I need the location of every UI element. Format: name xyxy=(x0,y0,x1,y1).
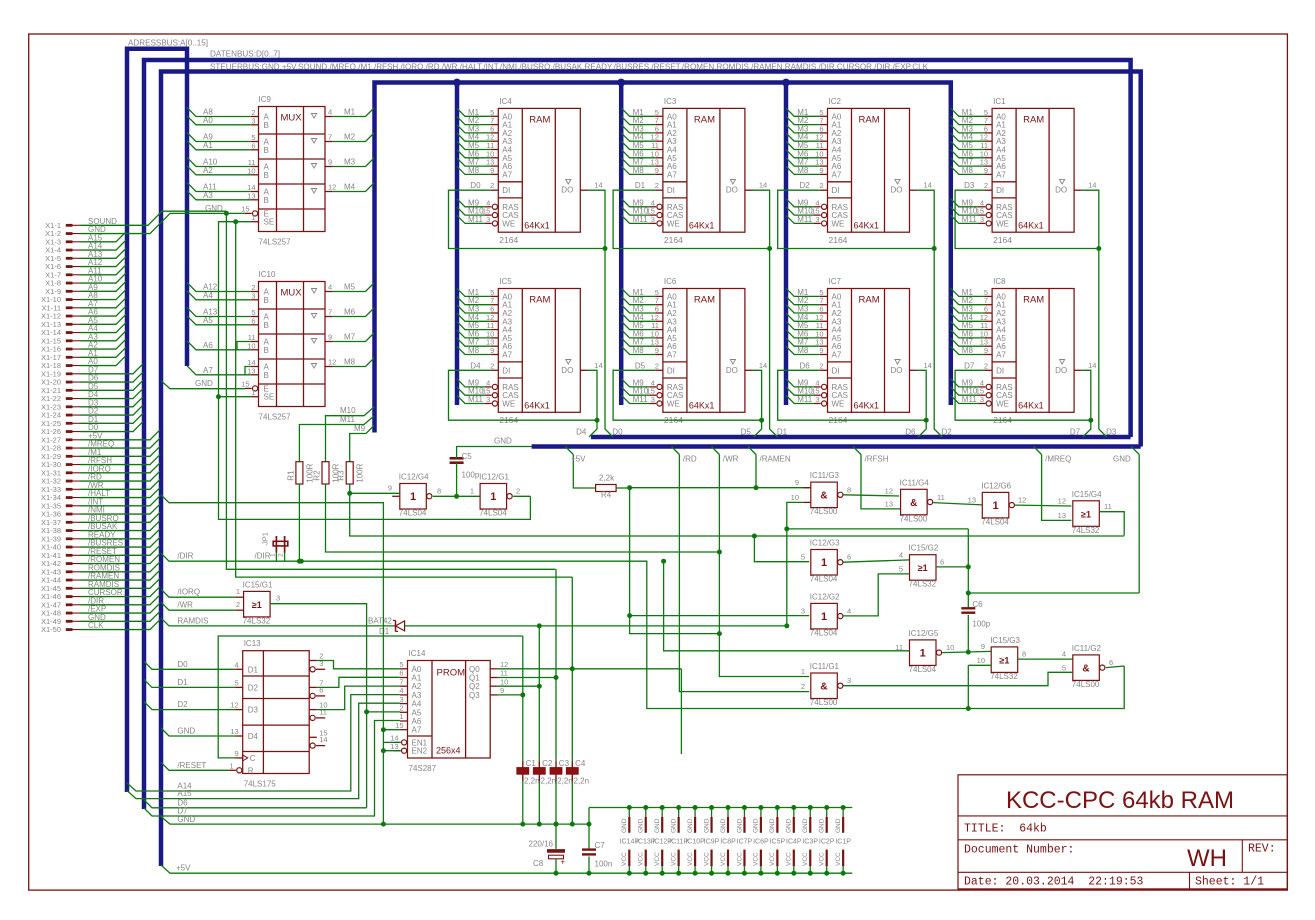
svg-text:14: 14 xyxy=(594,181,602,190)
svg-text:10: 10 xyxy=(247,341,255,350)
svg-text:74LS175: 74LS175 xyxy=(244,780,277,789)
svg-text:VCC: VCC xyxy=(670,852,677,866)
capacitor C5 100p xyxy=(450,452,480,480)
wire pin10 line xyxy=(787,528,969,530)
svg-text:VCC: VCC xyxy=(703,852,710,866)
ram IC7 2164 xyxy=(814,277,932,425)
svg-text:5: 5 xyxy=(399,660,403,669)
wire IC14 A2 pin 7 xyxy=(399,677,422,691)
svg-text:GND: GND xyxy=(703,818,710,833)
wire /DIR net xyxy=(161,552,1124,709)
wire Q1 net xyxy=(498,675,559,680)
svg-text:74LS32: 74LS32 xyxy=(243,616,271,625)
svg-text:A5: A5 xyxy=(203,316,213,325)
svg-text:A3: A3 xyxy=(203,191,213,200)
wire GND rail bottom xyxy=(161,808,589,827)
svg-text:JP1: JP1 xyxy=(261,532,270,545)
wire M2 to IC4 xyxy=(457,116,498,125)
svg-text:D4: D4 xyxy=(470,361,481,370)
wire M6 to IC6 xyxy=(622,329,663,338)
svg-text:IC15/G2: IC15/G2 xyxy=(909,544,939,553)
svg-text:IC15/G4: IC15/G4 xyxy=(1072,490,1102,499)
wire C5 bottom xyxy=(454,463,459,499)
wire D1 jog to /WR vertical xyxy=(630,626,722,636)
wire A0 to IC9 xyxy=(187,116,251,125)
svg-text:M5: M5 xyxy=(344,283,356,292)
svg-text:4: 4 xyxy=(328,108,332,117)
svg-text:10: 10 xyxy=(500,677,508,686)
svg-text:M2: M2 xyxy=(344,133,356,142)
svg-text:74LS00: 74LS00 xyxy=(900,514,928,523)
or IC15/G4 74LS32 xyxy=(1072,490,1102,535)
ram IC4 2164 xyxy=(485,97,603,245)
wire GND C6 line xyxy=(966,591,1139,596)
svg-text:&: & xyxy=(820,682,827,693)
wire M7 to IC1 xyxy=(951,158,992,167)
wire A14 net xyxy=(127,695,400,791)
connector pin X1-31 /IORQ xyxy=(41,463,160,478)
connector pin X1-32 /RD xyxy=(41,471,160,486)
svg-text:2164: 2164 xyxy=(664,235,683,245)
svg-text:74LS257: 74LS257 xyxy=(259,413,292,422)
svg-text:RAM: RAM xyxy=(1023,295,1044,306)
wire E enable net xyxy=(224,211,556,569)
wire IC14 Q3 pin 9 xyxy=(469,686,504,700)
wire IC12/G5 out to IC15/G3 xyxy=(942,642,991,653)
node D3 at IC1 xyxy=(964,181,975,190)
connector pin X1-19 D7 xyxy=(41,364,143,379)
svg-text:A15: A15 xyxy=(177,789,192,798)
svg-text:A3: A3 xyxy=(412,691,422,700)
wire D7 net xyxy=(144,721,400,817)
svg-text:12: 12 xyxy=(328,183,336,192)
connector pin X1-41 /RESET xyxy=(41,545,160,560)
node /RAMEN stub from bus xyxy=(748,447,791,464)
svg-text:74LS04: 74LS04 xyxy=(909,665,937,674)
svg-text:M9: M9 xyxy=(354,424,366,433)
svg-text:Q3: Q3 xyxy=(469,691,480,700)
svg-text:B: B xyxy=(264,321,269,330)
wire M7 to IC5 xyxy=(457,338,498,347)
capacitor C6 100p xyxy=(961,529,990,655)
wire M10 to IC4 xyxy=(457,207,490,216)
svg-text:2: 2 xyxy=(516,487,520,496)
svg-text:/DIR: /DIR xyxy=(255,552,271,561)
capacitor C4 2,2n xyxy=(566,577,589,824)
wire IC13 output pin 11 xyxy=(310,707,327,720)
svg-text:RAM: RAM xyxy=(1023,114,1044,125)
wire IC15/G2 output xyxy=(936,557,968,567)
svg-text:IC10P: IC10P xyxy=(685,839,705,846)
svg-text:D2: D2 xyxy=(248,683,259,692)
wire M4 from IC9 xyxy=(333,183,374,192)
svg-text:VCC: VCC xyxy=(736,852,743,866)
svg-text:Document Number:: Document Number: xyxy=(964,844,1074,857)
svg-text:DO: DO xyxy=(1055,366,1067,375)
connector pin X1-25 D1 xyxy=(41,413,143,428)
svg-text:D1: D1 xyxy=(635,181,646,190)
svg-text:GND: GND xyxy=(195,379,213,388)
svg-text:RAM: RAM xyxy=(859,114,880,125)
wire R4 down to D1 line xyxy=(627,488,632,626)
svg-text:DATENBUS:D[0..7]: DATENBUS:D[0..7] xyxy=(210,49,280,59)
svg-text:9: 9 xyxy=(819,166,823,175)
connector pin X1-38 /BUSAK xyxy=(41,521,160,536)
svg-text:3: 3 xyxy=(251,116,255,125)
svg-text:A4: A4 xyxy=(412,700,422,709)
svg-text:3: 3 xyxy=(399,695,403,704)
wire IC15/G3 pin10 xyxy=(968,656,991,665)
svg-text:A1: A1 xyxy=(412,674,422,683)
wire M7 to IC8 xyxy=(951,338,992,347)
wire M1 to IC5 xyxy=(457,288,498,297)
svg-text:WE: WE xyxy=(996,400,1009,409)
svg-text:14: 14 xyxy=(594,361,602,370)
bus DATENBUS label xyxy=(210,49,280,59)
bypass capacitor IC11P xyxy=(669,805,688,876)
svg-text:B: B xyxy=(264,121,269,130)
svg-text:1: 1 xyxy=(236,587,240,596)
svg-text:6: 6 xyxy=(251,141,255,150)
bypass capacitor IC10P xyxy=(685,805,705,876)
svg-text:2: 2 xyxy=(819,181,823,190)
svg-text:D2: D2 xyxy=(177,700,188,709)
svg-text:1: 1 xyxy=(230,761,234,770)
svg-text:14: 14 xyxy=(1088,181,1096,190)
wire A5 to IC10 xyxy=(187,316,251,325)
wire M9 xyxy=(350,424,374,462)
wire IC13 pin1 R xyxy=(229,761,242,773)
node D2 at IC2 xyxy=(800,181,811,190)
svg-text:GND: GND xyxy=(720,818,727,833)
svg-text:6: 6 xyxy=(940,557,944,566)
svg-text:IC6: IC6 xyxy=(664,277,677,286)
title REV xyxy=(1248,843,1276,856)
wire M1 to IC6 xyxy=(622,288,663,297)
svg-text:9: 9 xyxy=(235,749,239,758)
wire A15 net xyxy=(127,703,400,798)
svg-text:+5V: +5V xyxy=(571,455,586,464)
bus M-bus around RAM xyxy=(375,83,951,433)
svg-text:C3: C3 xyxy=(559,759,570,768)
svg-text:2: 2 xyxy=(399,704,403,713)
wire IC13 output pin 3 xyxy=(310,659,325,672)
bypass capacitor IC5P xyxy=(769,805,785,876)
bus ADRESSBUS label xyxy=(128,38,208,48)
svg-text:ADRESSBUS:A[0..15]: ADRESSBUS:A[0..15] xyxy=(128,38,208,48)
svg-text:3: 3 xyxy=(815,395,819,404)
svg-text:&: & xyxy=(820,491,827,502)
capacitor C3 2,2n xyxy=(550,569,573,824)
wire M4 to IC8 xyxy=(951,313,992,322)
svg-text:M1: M1 xyxy=(344,108,356,117)
wire R2 bottom run xyxy=(326,484,722,555)
svg-text:220/16: 220/16 xyxy=(529,840,554,849)
wire A6 to IC10 xyxy=(187,341,251,350)
svg-text:M3: M3 xyxy=(344,158,356,167)
svg-text:9: 9 xyxy=(795,478,799,487)
node D5 at IC6 xyxy=(635,361,646,370)
svg-text:15: 15 xyxy=(241,379,249,388)
svg-text:DI: DI xyxy=(996,186,1004,195)
svg-text:RAM: RAM xyxy=(529,114,550,125)
svg-text:/RESET: /RESET xyxy=(177,761,206,770)
wire D0 to IC13 xyxy=(144,660,235,670)
svg-text:GND: GND xyxy=(494,437,512,446)
wire M1 from IC9 xyxy=(333,108,374,117)
bypass capacitor IC4P xyxy=(786,805,802,876)
svg-text:13: 13 xyxy=(885,499,893,508)
connector pin X1-9 A9 xyxy=(45,281,126,296)
svg-text:11: 11 xyxy=(319,707,327,716)
connector pin X1-33 /WR xyxy=(41,479,160,494)
resistor R3 100R xyxy=(337,462,365,484)
svg-text:D7: D7 xyxy=(964,361,975,370)
svg-text:GND: GND xyxy=(819,818,826,833)
svg-text:4: 4 xyxy=(1062,650,1066,659)
svg-text:IC11/G4: IC11/G4 xyxy=(900,478,930,487)
svg-text:7: 7 xyxy=(328,308,332,317)
svg-text:9: 9 xyxy=(655,346,659,355)
wire D1 to IC13 xyxy=(144,678,235,688)
svg-text:B: B xyxy=(264,346,269,355)
wire M11 to IC1 xyxy=(951,215,984,224)
svg-text:EN2: EN2 xyxy=(412,747,428,756)
svg-text:3: 3 xyxy=(815,215,819,224)
node /WR stub from bus xyxy=(711,447,738,464)
svg-text:VCC: VCC xyxy=(638,852,645,866)
svg-text:74S287: 74S287 xyxy=(409,764,437,773)
connector pin X1-44 /RAMEN xyxy=(41,570,160,585)
or IC15/G3 74LS32 xyxy=(990,636,1020,681)
svg-text:5: 5 xyxy=(899,564,903,573)
svg-text:M4: M4 xyxy=(344,183,356,192)
svg-text:12: 12 xyxy=(230,701,238,710)
svg-text:RAM: RAM xyxy=(529,295,550,306)
wire R1 bottom to /DIR line xyxy=(297,484,302,564)
svg-text:4: 4 xyxy=(235,660,239,669)
svg-text:DI: DI xyxy=(502,186,510,195)
wire M10 to IC8 xyxy=(951,387,984,396)
wire A12 to IC10 xyxy=(187,283,251,292)
wire M9 to IC5 xyxy=(457,378,490,387)
wire IC14 A3 pin 4 xyxy=(399,686,422,700)
svg-text:3: 3 xyxy=(486,215,490,224)
wire GND to IC13 xyxy=(161,727,235,737)
svg-text:DO: DO xyxy=(726,366,738,375)
svg-text:74LS00: 74LS00 xyxy=(810,698,838,707)
svg-text:11: 11 xyxy=(500,669,508,678)
svg-text:2,2n: 2,2n xyxy=(557,777,573,786)
svg-text:A4: A4 xyxy=(203,291,213,300)
wire A7 to IC10 xyxy=(187,366,251,375)
wire IC14 A5 pin 2 xyxy=(399,704,422,718)
svg-text:IC3P: IC3P xyxy=(802,839,818,846)
connector pin X1-20 D6 xyxy=(41,372,143,387)
node +5V stub xyxy=(565,447,595,489)
connector pin X1-34 /HALT xyxy=(41,488,160,503)
svg-text:74LS04: 74LS04 xyxy=(479,509,507,518)
svg-text:M11: M11 xyxy=(633,395,649,404)
connector pin X1-13 A5 xyxy=(41,314,126,329)
wire M9 to IC6 xyxy=(622,378,655,387)
svg-text:C2: C2 xyxy=(542,759,553,768)
connector pin X1-5 A13 xyxy=(45,248,126,263)
svg-text:12: 12 xyxy=(328,358,336,367)
svg-text:DI: DI xyxy=(832,366,840,375)
wire IC12/G2 pin3 xyxy=(801,606,805,615)
svg-text:64Kx1: 64Kx1 xyxy=(689,401,715,411)
svg-text:3: 3 xyxy=(980,215,984,224)
svg-text:7: 7 xyxy=(399,677,403,686)
wire IC11/G2 output xyxy=(1106,658,1124,668)
connector pin X1-12 A6 xyxy=(41,306,126,321)
svg-text:A6: A6 xyxy=(203,341,213,350)
svg-text:MUX: MUX xyxy=(281,288,303,299)
svg-text:5: 5 xyxy=(1062,663,1066,672)
svg-text:IC10: IC10 xyxy=(259,270,276,279)
svg-text:SE: SE xyxy=(264,218,275,227)
svg-text:8: 8 xyxy=(847,485,851,494)
svg-text:A7: A7 xyxy=(502,170,512,179)
wire D1 line to R4 vertical xyxy=(405,623,790,628)
wire IC15/G3 out to IC11/G2 xyxy=(1018,650,1073,660)
wire D7 net (DI/DO IC8) xyxy=(955,370,1093,437)
svg-text:IC5P: IC5P xyxy=(770,839,786,846)
svg-text:1: 1 xyxy=(992,500,998,512)
svg-text:D5: D5 xyxy=(635,361,646,370)
wire +5V rail bottom xyxy=(161,864,852,876)
node D4 at IC5 xyxy=(470,361,481,370)
wire IC11/G1 out to IC11/G2 pin5 xyxy=(843,672,1072,685)
wire IC14 EN1 pin 14 xyxy=(390,734,427,748)
wire IC12/G2 out to IC15/G2 pin5 xyxy=(843,574,909,616)
wire IC13 output pin 6 xyxy=(310,685,325,698)
connector pin X1-11 A7 xyxy=(42,298,126,313)
svg-text:KCC-CPC 64kb RAM: KCC-CPC 64kb RAM xyxy=(1006,787,1234,814)
wire IC13 pin7 to IC14 A1 xyxy=(317,677,400,687)
svg-text:3: 3 xyxy=(980,395,984,404)
svg-text:2: 2 xyxy=(801,682,805,691)
svg-text:DI: DI xyxy=(502,366,510,375)
bus STEUERBUS return xyxy=(532,444,1141,449)
svg-text:A2: A2 xyxy=(412,682,422,691)
wire IC13 output pin 14 xyxy=(310,735,328,748)
svg-text:12: 12 xyxy=(500,660,508,669)
svg-text:M8: M8 xyxy=(962,166,974,175)
svg-text:1: 1 xyxy=(470,487,474,496)
svg-text:R: R xyxy=(248,766,254,775)
connector pin X1-6 A12 xyxy=(45,257,126,272)
svg-text:74LS257: 74LS257 xyxy=(259,238,292,247)
svg-text:64Kx1: 64Kx1 xyxy=(1018,401,1044,411)
connector pin X1-23 D3 xyxy=(41,397,143,412)
svg-text:IC9: IC9 xyxy=(259,95,272,104)
svg-text:6: 6 xyxy=(251,316,255,325)
svg-text:14: 14 xyxy=(924,361,932,370)
wire M11 to IC8 xyxy=(951,395,984,404)
svg-text:12: 12 xyxy=(885,487,893,496)
svg-text:13: 13 xyxy=(247,191,255,200)
wire IC12/G3 input drop xyxy=(754,536,809,562)
svg-text:+5V: +5V xyxy=(176,864,191,873)
svg-text:M11: M11 xyxy=(468,215,484,224)
connector pin X1-22 D4 xyxy=(41,389,143,404)
svg-text:R4: R4 xyxy=(601,491,612,500)
svg-text:M11: M11 xyxy=(468,395,484,404)
svg-text:B: B xyxy=(264,371,269,380)
connector pin X1-2 GND xyxy=(45,213,170,238)
wire IC15/G4 pin13 xyxy=(1058,511,1066,520)
svg-text:GND: GND xyxy=(835,818,842,833)
svg-text:2,2k: 2,2k xyxy=(599,474,615,483)
wire M8 to IC5 xyxy=(457,346,498,355)
svg-text:10: 10 xyxy=(946,643,954,652)
wire Q0 net xyxy=(498,666,682,754)
wire D3 net (DI/DO IC1) xyxy=(955,190,1117,437)
svg-text:/RAMEN: /RAMEN xyxy=(760,455,791,464)
wire M6 to IC3 xyxy=(622,149,663,158)
svg-text:14: 14 xyxy=(1088,361,1096,370)
wire M9 to IC8 xyxy=(951,378,984,387)
svg-text:Q2: Q2 xyxy=(469,682,480,691)
svg-text:/RFSH: /RFSH xyxy=(865,455,889,464)
wire M2 to IC1 xyxy=(951,116,992,125)
wire M6 to IC8 xyxy=(951,329,992,338)
svg-text:GND: GND xyxy=(687,818,694,833)
svg-text:A1: A1 xyxy=(203,141,213,150)
ram IC6 2164 xyxy=(649,277,767,425)
svg-text:11: 11 xyxy=(937,493,945,502)
svg-text:IC12/G5: IC12/G5 xyxy=(909,629,939,638)
mux IC9 74LS257 xyxy=(241,95,336,247)
wire IC13 pin9 C stub xyxy=(235,749,243,758)
wire M8 to IC8 xyxy=(951,346,992,355)
jumper JP1 xyxy=(261,532,288,561)
wire /WR net xyxy=(719,455,809,677)
svg-text:74LS32: 74LS32 xyxy=(990,672,1018,681)
svg-text:2: 2 xyxy=(278,553,285,557)
bypass capacitor IC8P xyxy=(720,805,736,876)
svg-text:1: 1 xyxy=(821,557,827,569)
svg-text:IC12/G2: IC12/G2 xyxy=(810,592,840,601)
svg-text:M8: M8 xyxy=(633,166,645,175)
svg-text:M8: M8 xyxy=(344,358,356,367)
svg-text:D2: D2 xyxy=(800,181,811,190)
capacitor C2 2,2n xyxy=(533,626,556,824)
wire /IORQ to IC15/G1 xyxy=(161,587,244,597)
wire IC13 pin10 to IC14 A2 xyxy=(317,686,400,710)
wire RAMDIS net xyxy=(161,616,396,626)
svg-text:M11: M11 xyxy=(340,415,356,424)
wire M9 to IC3 xyxy=(622,198,655,207)
svg-text:14: 14 xyxy=(319,735,327,744)
connector pin X1-36 /NMI xyxy=(41,504,160,519)
svg-text:GND: GND xyxy=(786,818,793,833)
svg-text:R3: R3 xyxy=(337,470,346,481)
svg-text:GND: GND xyxy=(670,818,677,833)
wire IC11/G4 pin13 xyxy=(885,499,901,509)
svg-text:R2: R2 xyxy=(313,470,322,481)
svg-text:D1: D1 xyxy=(379,627,390,636)
svg-text:64Kx1: 64Kx1 xyxy=(854,401,880,411)
wire M2 to IC3 xyxy=(622,116,663,125)
svg-text:2164: 2164 xyxy=(993,235,1012,245)
svg-text:IC2: IC2 xyxy=(829,97,842,106)
svg-text:VCC: VCC xyxy=(802,852,809,866)
svg-text:2: 2 xyxy=(984,361,988,370)
wire IC12/G4 input xyxy=(350,484,400,497)
